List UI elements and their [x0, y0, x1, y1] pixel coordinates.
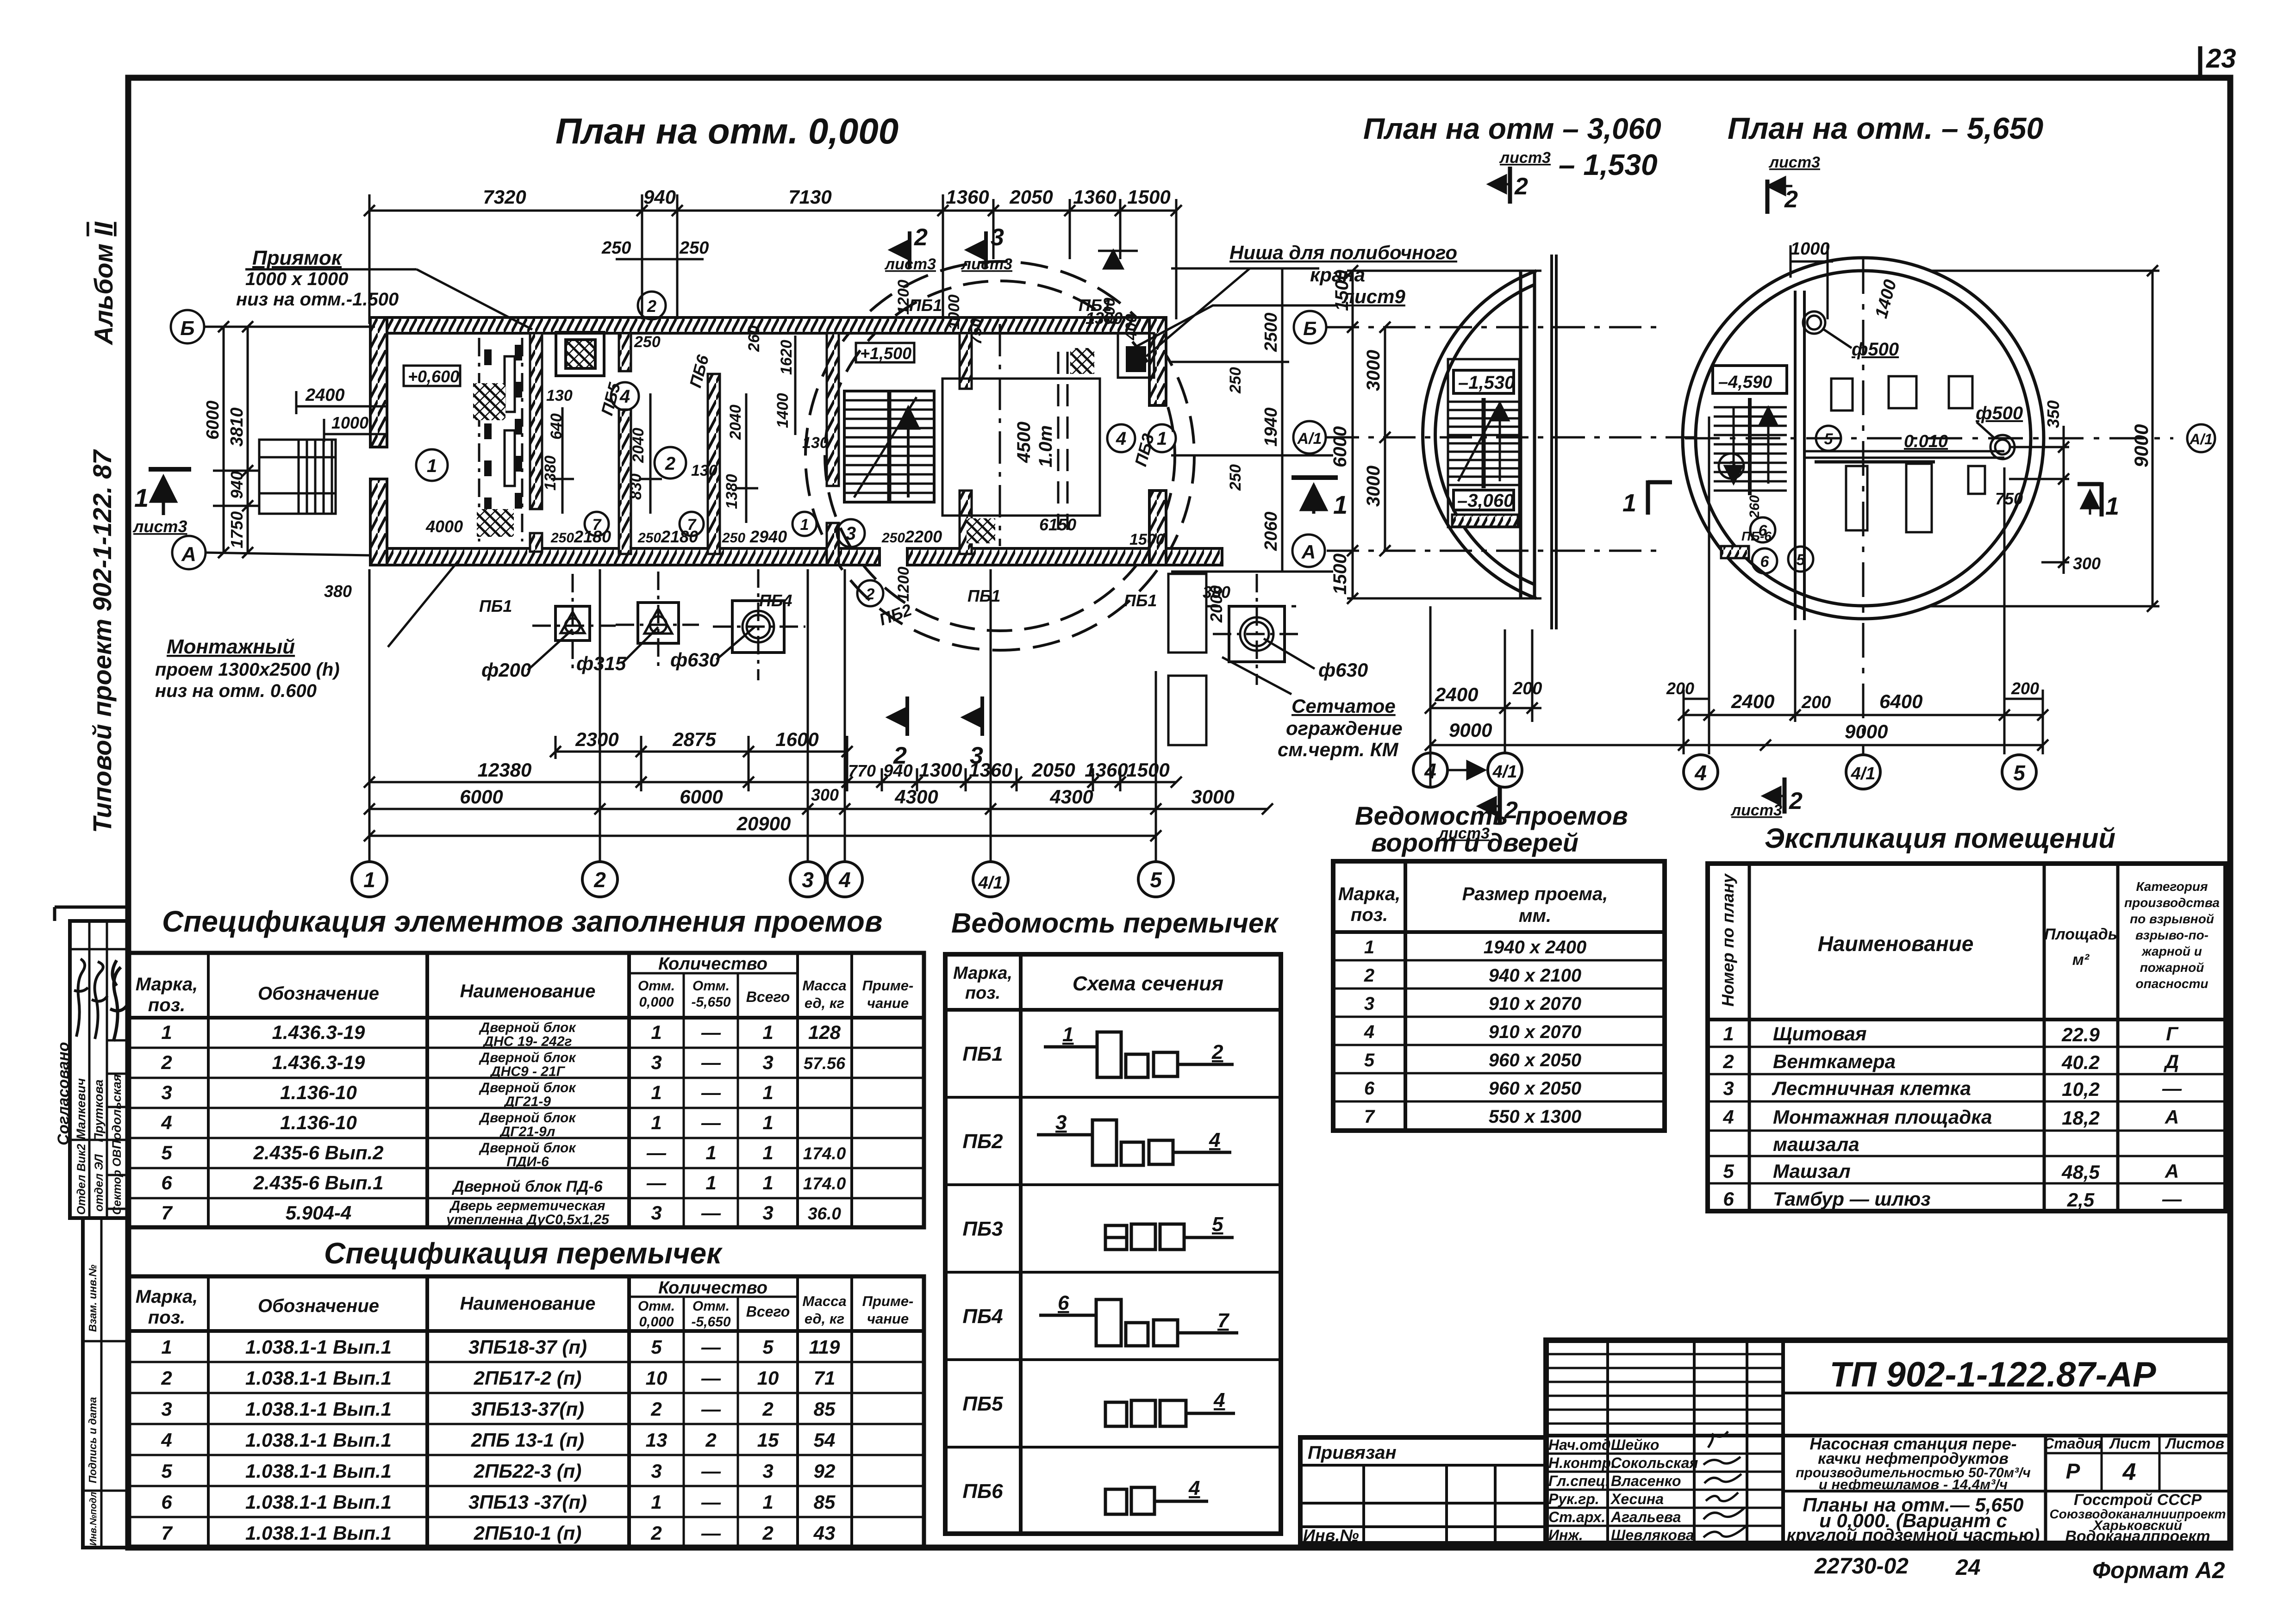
svg-text:1600: 1600 [775, 728, 818, 750]
svg-text:3: 3 [846, 523, 856, 544]
svg-text:4: 4 [1364, 1022, 1374, 1042]
svg-text:24: 24 [1955, 1555, 1980, 1580]
svg-text:200: 200 [1666, 679, 1694, 698]
svg-text:2: 2 [161, 1367, 172, 1389]
svg-text:940: 940 [883, 761, 912, 781]
svg-text:м²: м² [2072, 951, 2090, 969]
svg-text:2: 2 [1784, 186, 1798, 213]
svg-text:1: 1 [651, 1112, 661, 1133]
svg-text:низ на отм.-1.500: низ на отм.-1.500 [236, 289, 399, 310]
bottom dim chains [369, 569, 1268, 861]
svg-text:Номер по плану: Номер по плану [1718, 873, 1737, 1007]
svg-text:940: 940 [227, 471, 246, 499]
top dimension line [369, 194, 1176, 324]
svg-text:4: 4 [161, 1112, 172, 1133]
svg-text:3: 3 [762, 1202, 773, 1224]
svg-text:3: 3 [1364, 994, 1374, 1014]
svg-text:ПБ-6: ПБ-6 [1741, 529, 1772, 543]
svg-text:Шейко: Шейко [1611, 1436, 1659, 1453]
svg-text:Ведомость перемычек: Ведомость перемычек [951, 908, 1279, 939]
left dims [206, 327, 388, 553]
svg-text:15: 15 [757, 1429, 779, 1451]
partition P1 [530, 333, 542, 509]
svg-text:9000: 9000 [1449, 719, 1492, 741]
interior bottom dims [425, 515, 1076, 546]
svg-text:—: — [701, 1112, 721, 1133]
svg-text:2,5: 2,5 [2067, 1189, 2095, 1211]
svg-text:1360: 1360 [946, 186, 989, 208]
svg-text:Дверной блок: Дверной блок [478, 1140, 576, 1156]
svg-text:20900: 20900 [736, 813, 791, 834]
svg-text:7: 7 [1364, 1107, 1375, 1127]
svg-text:Всего: Всего [746, 1303, 790, 1320]
svg-text:250: 250 [1227, 367, 1244, 394]
svg-text:Марка,: Марка, [136, 974, 198, 995]
svg-text:ПБ1: ПБ1 [962, 1043, 1003, 1065]
svg-text:1300: 1300 [919, 759, 962, 781]
svg-text:4: 4 [838, 868, 851, 892]
right dims [1930, 271, 2159, 606]
svg-text:Приямок: Приямок [252, 247, 343, 269]
svg-text:6: 6 [1760, 553, 1770, 571]
svg-text:1400: 1400 [774, 393, 792, 428]
svg-text:—: — [646, 1142, 667, 1163]
svg-text:5: 5 [1150, 868, 1162, 892]
svg-text:-5,650: -5,650 [691, 1314, 730, 1330]
svg-text:ДГ21-9: ДГ21-9 [503, 1094, 551, 1109]
svg-text:утепленна ДуС0,5х1,25: утепленна ДуС0,5х1,25 [445, 1212, 610, 1227]
svg-text:2940: 2940 [749, 527, 787, 546]
svg-text:Количество: Количество [658, 954, 767, 974]
ПБ5 section scheme [1105, 1400, 1235, 1426]
svg-text:ПДИ-6: ПДИ-6 [506, 1154, 549, 1169]
svg-text:1.136-10: 1.136-10 [280, 1112, 357, 1133]
svg-text:1500: 1500 [1332, 270, 1352, 311]
svg-text:ед, кг: ед, кг [805, 1311, 844, 1327]
svg-text:—: — [701, 1051, 721, 1073]
Приямок annotation [236, 247, 532, 330]
+1,500 label box [856, 343, 914, 363]
svg-text:7130: 7130 [788, 186, 831, 208]
approval strip texts and signatures [55, 959, 128, 1215]
250 250 sub dims [616, 258, 704, 261]
svg-text:1380: 1380 [542, 455, 559, 491]
svg-text:лист3: лист3 [132, 517, 187, 536]
svg-text:лист3: лист3 [1499, 149, 1551, 167]
svg-text:ДГ21-9л: ДГ21-9л [499, 1124, 555, 1139]
Ведомость перемычек table [945, 908, 1281, 1534]
partition P3 [708, 374, 720, 554]
svg-text:Отм.: Отм. [693, 978, 730, 994]
svg-text:1: 1 [651, 1021, 661, 1043]
svg-text:лист3: лист3 [961, 255, 1012, 273]
svg-text:6000: 6000 [203, 400, 223, 440]
svg-text:1.0т: 1.0т [1036, 425, 1056, 467]
svg-text:Н.контр.: Н.контр. [1548, 1455, 1615, 1471]
svg-text:7: 7 [161, 1522, 173, 1544]
svg-text:6: 6 [161, 1172, 172, 1194]
svg-text:0.010: 0.010 [1904, 432, 1948, 451]
svg-text:Дверной блок: Дверной блок [478, 1080, 576, 1095]
svg-text:2ПБ22-3 (п): 2ПБ22-3 (п) [474, 1460, 582, 1482]
svg-text:174.0: 174.0 [803, 1144, 846, 1163]
svg-text:круглой подземной частью): круглой подземной частью) [1787, 1526, 2040, 1545]
svg-text:6000: 6000 [460, 786, 503, 808]
svg-text:Размер проема,: Размер проема, [1462, 884, 1608, 904]
left approval strip (Согласовано block) [55, 907, 128, 1218]
svg-text:см.черт. КМ: см.черт. КМ [1278, 739, 1399, 760]
svg-text:1360: 1360 [1085, 759, 1128, 781]
svg-text:1: 1 [1723, 1023, 1734, 1045]
svg-text:1360: 1360 [969, 759, 1012, 781]
svg-text:Водоканалпроект: Водоканалпроект [2065, 1528, 2210, 1545]
svg-text:2400: 2400 [305, 386, 345, 405]
svg-text:Обозначение: Обозначение [258, 983, 379, 1004]
svg-text:3: 3 [802, 868, 814, 892]
svg-text:2: 2 [1789, 788, 1803, 815]
svg-text:960 х 2050: 960 х 2050 [1489, 1078, 1581, 1099]
svg-text:770: 770 [848, 761, 876, 780]
svg-text:ДНС 19- 242г: ДНС 19- 242г [482, 1034, 572, 1049]
svg-text:6: 6 [1723, 1188, 1734, 1210]
stair block [1448, 359, 1519, 527]
svg-text:18,2: 18,2 [2062, 1107, 2100, 1129]
svg-text:3810: 3810 [227, 407, 247, 447]
svg-text:ф500: ф500 [1976, 403, 2023, 423]
svg-text:3: 3 [1055, 1111, 1067, 1134]
svg-text:А: А [2165, 1106, 2179, 1128]
svg-text:9000: 9000 [1845, 721, 1888, 742]
svg-text:Р: Р [2066, 1459, 2080, 1483]
svg-text:ворот и дверей: ворот и дверей [1371, 828, 1578, 857]
fence area right bottom [1168, 574, 1296, 745]
svg-text:910 х 2070: 910 х 2070 [1489, 994, 1581, 1014]
svg-text:ПБ1: ПБ1 [967, 586, 1000, 605]
ф500 circles [1803, 311, 2015, 459]
svg-text:4: 4 [1213, 1389, 1225, 1412]
svg-text:чание: чание [867, 1311, 909, 1327]
svg-text:1: 1 [161, 1336, 172, 1358]
svg-text:Нач.отд.: Нач.отд. [1548, 1436, 1615, 1453]
svg-text:5: 5 [1723, 1160, 1734, 1182]
svg-text:250: 250 [679, 238, 709, 258]
svg-text:5: 5 [1212, 1213, 1223, 1236]
svg-text:План на отм – 3,060: План на отм – 3,060 [1363, 112, 1661, 145]
svg-text:43: 43 [813, 1522, 836, 1544]
svg-text:6000: 6000 [680, 786, 723, 808]
svg-text:1: 1 [651, 1491, 661, 1513]
svg-text:+0,600: +0,600 [408, 367, 459, 386]
svg-text:3ПБ13 -37(п): 3ПБ13 -37(п) [468, 1491, 587, 1513]
left margin vertical text: Типовой проект 902-1-122.87 [87, 449, 117, 833]
svg-text:1: 1 [762, 1021, 773, 1043]
svg-text:85: 85 [814, 1491, 836, 1513]
svg-text:ф630: ф630 [1318, 659, 1368, 681]
plan title 0,000 [555, 111, 898, 151]
svg-text:ф315: ф315 [576, 653, 626, 674]
svg-text:1.038.1-1 Вып.1: 1.038.1-1 Вып.1 [245, 1429, 392, 1451]
svg-text:Б: Б [180, 317, 194, 340]
svg-text:мм.: мм. [1519, 906, 1551, 926]
inner dividing wall [1795, 291, 1804, 620]
svg-text:Спецификация перемычек: Спецификация перемычек [324, 1237, 723, 1270]
svg-text:1360: 1360 [1073, 186, 1116, 208]
svg-text:А/1: А/1 [2189, 431, 2213, 448]
svg-text:3: 3 [1723, 1077, 1734, 1099]
svg-text:Согласовано: Согласовано [55, 1042, 72, 1145]
svg-text:ПБ2: ПБ2 [962, 1130, 1003, 1153]
svg-text:Госстрой СССР: Госстрой СССР [2074, 1491, 2202, 1509]
right side dims of plan1 [1171, 268, 1333, 572]
svg-text:260: 260 [1747, 495, 1762, 519]
svg-text:1: 1 [2105, 492, 2119, 520]
svg-text:Наименование: Наименование [460, 1293, 596, 1314]
bottom dims [1684, 690, 2043, 754]
svg-text:4: 4 [1722, 1106, 1734, 1128]
svg-text:Масса: Масса [802, 1293, 846, 1309]
svg-text:3000: 3000 [1363, 350, 1384, 391]
svg-text:57.56: 57.56 [804, 1054, 846, 1073]
svg-text:2000: 2000 [1207, 585, 1226, 623]
section 1 right [2078, 482, 2102, 516]
svg-text:А/1: А/1 [1297, 430, 1322, 448]
D-shaped underground plan [1292, 149, 1771, 842]
svg-text:Масса: Масса [802, 977, 846, 994]
svg-text:Венткамера: Венткамера [1773, 1051, 1896, 1072]
svg-text:2: 2 [705, 1429, 716, 1451]
main floor plan 0,000 [132, 186, 1457, 897]
svg-text:1: 1 [651, 1082, 661, 1103]
svg-text:130: 130 [802, 434, 829, 452]
svg-text:1500: 1500 [1126, 759, 1169, 781]
left margin vertical text: Альбом II [89, 221, 118, 346]
svg-text:Инж.: Инж. [1548, 1527, 1583, 1543]
svg-text:4: 4 [161, 1429, 172, 1451]
Спецификация элементов заполнения проемов [128, 905, 924, 1227]
svg-text:2: 2 [665, 454, 675, 474]
svg-text:2300: 2300 [575, 728, 618, 750]
svg-text:—: — [2162, 1077, 2182, 1099]
svg-text:чание: чание [867, 995, 909, 1011]
svg-text:2: 2 [650, 1522, 661, 1544]
svg-text:Рук.гр.: Рук.гр. [1548, 1491, 1599, 1507]
svg-text:2ПБ10-1 (п): 2ПБ10-1 (п) [474, 1522, 582, 1544]
ПБ1 section scheme [1044, 1032, 1234, 1077]
svg-text:2.435-6 Вып.1: 2.435-6 Вып.1 [253, 1172, 384, 1194]
svg-text:Тамбур — шлюз: Тамбур — шлюз [1773, 1188, 1931, 1210]
svg-text:2: 2 [914, 224, 928, 251]
svg-text:—: — [646, 1172, 667, 1194]
svg-text:1: 1 [427, 456, 437, 476]
svg-text:200: 200 [2011, 679, 2039, 698]
svg-text:1000: 1000 [945, 294, 963, 330]
svg-text:Всего: Всего [746, 989, 790, 1005]
page number 23 [2200, 44, 2236, 78]
svg-text:—: — [701, 1202, 721, 1224]
svg-text:2500: 2500 [1261, 312, 1281, 352]
svg-text:5: 5 [762, 1336, 774, 1358]
circle walls [1683, 258, 2044, 619]
svg-text:3: 3 [651, 1051, 661, 1073]
svg-text:взрыво-по-: взрыво-по- [2135, 928, 2209, 942]
svg-text:Монтажный: Монтажный [167, 635, 295, 658]
svg-text:Приме-: Приме- [862, 977, 914, 994]
svg-text:ПБ5: ПБ5 [962, 1393, 1003, 1415]
svg-text:1: 1 [800, 516, 809, 534]
svg-text:2: 2 [866, 585, 875, 603]
svg-text:жарной и: жарной и [2141, 944, 2202, 958]
svg-text:3: 3 [762, 1051, 773, 1073]
svg-text:Лист: Лист [2109, 1435, 2151, 1452]
right wall [1149, 317, 1166, 565]
bottom symbols ф200 ф315 ф630 [555, 601, 1285, 662]
svg-text:4000: 4000 [425, 517, 463, 536]
svg-text:1.038.1-1 Вып.1: 1.038.1-1 Вып.1 [245, 1367, 392, 1389]
svg-text:Монтажная площадка: Монтажная площадка [1773, 1106, 1992, 1128]
svg-text:Б: Б [1303, 317, 1317, 339]
partition P2 [619, 333, 631, 371]
left strip rotated labels [87, 1264, 99, 1546]
svg-text:лист3: лист3 [884, 255, 936, 273]
svg-text:260: 260 [745, 325, 763, 352]
ПБ2 section scheme [1037, 1120, 1231, 1165]
svg-text:Сетчатое: Сетчатое [1291, 695, 1396, 717]
svg-text:отдел ЭЛ: отдел ЭЛ [93, 1154, 106, 1212]
svg-text:36.0: 36.0 [808, 1204, 841, 1223]
svg-text:13: 13 [646, 1429, 668, 1451]
svg-text:1: 1 [705, 1142, 716, 1163]
svg-text:250: 250 [1227, 464, 1244, 491]
svg-text:Сокольская: Сокольская [1611, 1455, 1698, 1471]
svg-text:4300: 4300 [1049, 786, 1093, 808]
svg-text:Типовой проект 902-1-122. 87: Типовой проект 902-1-122. 87 [87, 449, 117, 833]
svg-text:1: 1 [363, 868, 375, 892]
svg-text:3: 3 [161, 1082, 172, 1103]
svg-text:6: 6 [1364, 1078, 1375, 1099]
svg-text:3000: 3000 [1191, 786, 1234, 808]
svg-text:ПБ4: ПБ4 [962, 1305, 1003, 1328]
svg-text:4: 4 [1209, 1129, 1220, 1151]
stair treads [844, 391, 934, 502]
svg-text:1: 1 [1157, 429, 1167, 449]
svg-text:300: 300 [811, 785, 839, 804]
svg-text:4: 4 [1694, 761, 1707, 785]
svg-text:5: 5 [161, 1460, 172, 1482]
svg-text:5: 5 [1364, 1050, 1375, 1070]
top section flag 2 [1488, 167, 1510, 204]
svg-text:200: 200 [1801, 693, 1831, 712]
left dim chains [1347, 271, 1541, 598]
svg-text:Дверной блок: Дверной блок [478, 1110, 576, 1126]
svg-text:поз.: поз. [148, 1307, 185, 1328]
svg-text:ПБ1: ПБ1 [479, 597, 512, 616]
svg-text:поз.: поз. [1351, 905, 1388, 925]
svg-text:ПБ1: ПБ1 [909, 296, 942, 315]
svg-text:250: 250 [722, 530, 745, 546]
svg-text:5: 5 [1797, 551, 1806, 569]
signatures in title block [1703, 1431, 1746, 1537]
лист9 and ниша leader top right [1098, 251, 1338, 356]
svg-text:Инв.№подл: Инв.№подл [88, 1492, 99, 1546]
svg-text:ТП 902-1-122.87-АР: ТП 902-1-122.87-АР [1829, 1355, 2156, 1394]
svg-text:940 х 2100: 940 х 2100 [1489, 965, 1581, 986]
axis lines [1685, 259, 2173, 754]
ПБ4 section scheme [1039, 1300, 1238, 1346]
svg-text:750: 750 [967, 318, 985, 345]
svg-text:—: — [701, 1522, 721, 1544]
crosshatch patches [473, 383, 505, 420]
А/1 bubble right [2187, 424, 2215, 452]
svg-text:910 х 2070: 910 х 2070 [1489, 1022, 1581, 1042]
dims top [1791, 245, 1833, 319]
svg-text:1750: 1750 [227, 511, 246, 548]
svg-text:2400: 2400 [1435, 684, 1478, 705]
svg-text:1000: 1000 [1791, 239, 1830, 259]
svg-text:Дверной блок: Дверной блок [478, 1020, 576, 1035]
svg-text:1: 1 [762, 1112, 773, 1133]
svg-text:5: 5 [2013, 761, 2026, 785]
Монтажный проем annotation [155, 561, 458, 701]
svg-text:—: — [701, 1336, 721, 1358]
svg-text:22730-02: 22730-02 [1814, 1554, 1909, 1579]
svg-text:3ПБ13-37(п): 3ПБ13-37(п) [471, 1398, 584, 1420]
svg-text:Отм.: Отм. [638, 1299, 675, 1314]
svg-text:—: — [2162, 1188, 2182, 1210]
svg-text:–1,530: –1,530 [1458, 373, 1515, 393]
svg-text:250: 250 [881, 530, 905, 546]
svg-text:22.9: 22.9 [2061, 1024, 2100, 1045]
svg-text:План на отм. – 5,650: План на отм. – 5,650 [1728, 111, 2043, 145]
svg-text:лист3: лист3 [1730, 802, 1782, 819]
svg-text:Взам. инв.№: Взам. инв.№ [87, 1264, 99, 1332]
svg-text:2: 2 [161, 1051, 172, 1073]
svg-text:Ст.арх.: Ст.арх. [1548, 1509, 1605, 1525]
exterior stair left [259, 440, 336, 514]
svg-text:Отм.: Отм. [638, 978, 675, 994]
svg-text:7: 7 [1217, 1309, 1230, 1332]
svg-text:4500: 4500 [1014, 422, 1034, 463]
svg-text:5.904-4: 5.904-4 [286, 1202, 351, 1224]
svg-text:3ПБ18-37 (п): 3ПБ18-37 (п) [468, 1336, 587, 1358]
svg-text:А: А [1301, 541, 1316, 563]
svg-text:2: 2 [1514, 173, 1528, 200]
svg-text:2: 2 [762, 1398, 773, 1420]
svg-text:ф200: ф200 [481, 659, 531, 681]
svg-text:Д: Д [2164, 1051, 2179, 1072]
svg-text:250: 250 [601, 238, 631, 258]
svg-text:1.038.1-1 Вып.1: 1.038.1-1 Вып.1 [245, 1491, 392, 1513]
section mark 1 left [149, 469, 191, 515]
right section 1 [1648, 480, 1672, 515]
svg-text:Хесина: Хесина [1610, 1491, 1664, 1507]
svg-text:1: 1 [1062, 1023, 1073, 1046]
svg-text:Дверь герметическая: Дверь герметическая [449, 1198, 605, 1213]
svg-text:1: 1 [1333, 490, 1348, 519]
svg-text:производства: производства [2124, 895, 2220, 910]
svg-text:250: 250 [637, 530, 661, 546]
svg-text:—: — [701, 1021, 721, 1043]
svg-text:960 х 2050: 960 х 2050 [1489, 1050, 1581, 1070]
left wall [370, 317, 387, 565]
svg-text:3: 3 [991, 224, 1004, 251]
svg-text:–4,590: –4,590 [1718, 373, 1772, 392]
svg-text:4/1: 4/1 [978, 873, 1003, 893]
svg-text:Г: Г [2166, 1023, 2179, 1045]
svg-text:2: 2 [1722, 1051, 1734, 1072]
svg-text:1: 1 [762, 1082, 773, 1103]
svg-text:3000: 3000 [1363, 466, 1384, 507]
svg-text:Пруткова: Пруткова [92, 1080, 106, 1142]
